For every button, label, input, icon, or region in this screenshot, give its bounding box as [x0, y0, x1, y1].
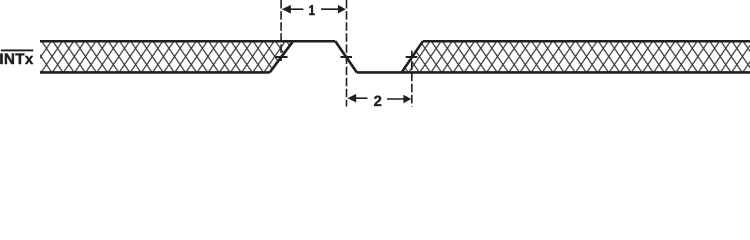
signal label INTx overline — [1, 49, 33, 51]
wire: bottom rail low plateau through right band — [357, 71, 750, 74]
signal label INTx — [0, 54, 33, 64]
dimension 1 left tail — [290, 8, 303, 10]
dashed reference line A (start of measurement 1) — [280, 0, 282, 61]
rising edge right — [402, 41, 423, 72]
wire: top rail right band — [423, 40, 750, 43]
mid-level tick on falling edge — [341, 56, 353, 58]
dashed reference line C (end of measurement 2) — [411, 51, 413, 107]
mid-level tick on right rising edge — [406, 56, 418, 58]
dashed reference line B (end of 1 / start of 2) — [346, 0, 348, 107]
dimension 1 left arrowhead — [282, 5, 291, 14]
mid-level tick on left rising edge — [276, 56, 288, 58]
dimension 2 right arrowhead — [403, 95, 411, 104]
dimension 1 right tail — [321, 8, 339, 10]
hatched invalid region right — [402, 41, 750, 72]
dimension 2 label — [374, 96, 381, 106]
wire: bottom rail left band — [40, 71, 270, 74]
dimension 2 right tail — [387, 98, 404, 100]
dimension 1 right arrowhead — [338, 5, 346, 14]
wire: top rail left band through high plateau — [40, 40, 335, 43]
falling edge — [335, 41, 357, 72]
dimension 1 label — [309, 5, 314, 15]
hatched invalid region left — [40, 41, 293, 72]
dimension 2 left tail — [356, 97, 368, 99]
rising edge left — [270, 41, 293, 72]
dimension 2 left arrowhead — [347, 94, 356, 103]
